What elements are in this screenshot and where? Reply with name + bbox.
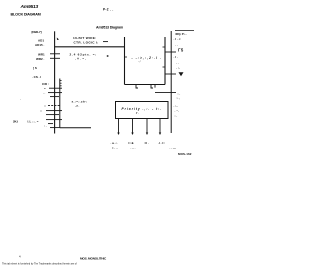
svg-text:, # . = ,: , # . = , [75, 57, 86, 61]
svg-text::. ,: :. , [177, 96, 181, 100]
svg-text:[ S: [ S [33, 66, 37, 70]
svg-text:::: :: [44, 104, 46, 108]
data bus (left vertical bus) [54, 31, 56, 133]
svg-text:. ~.: . ~. [175, 109, 180, 113]
output stub 3 [146, 119, 148, 134]
svg-text:MOS-162: MOS-162 [178, 152, 192, 156]
svg-text:AD15 .: AD15 . [35, 43, 45, 47]
svg-text:BLOCK DIAGRAM: BLOCK DIAGRAM [11, 13, 41, 17]
stub below big box B [151, 85, 153, 89]
svg-text:: .: : . [44, 123, 47, 127]
svg-text:CTR. LOGIC I:: CTR. LOGIC I: [74, 41, 99, 45]
svg-text:IRQ. P:...: IRQ. P:... [176, 32, 187, 36]
svg-text:. :..: . :.. [174, 104, 179, 108]
stub below big box A [136, 85, 138, 89]
priority/interrupt block (bottom box) [116, 102, 169, 119]
svg-text:WR1: WR1 [38, 53, 45, 57]
wire W1: bus to command register box [55, 46, 125, 48]
svg-text:Priority .,:. - t:.: Priority .,:. - t:. [122, 107, 163, 111]
svg-text:Am9513: Am9513 [20, 4, 39, 10]
svg-text:. :·: . :· [176, 66, 180, 70]
svg-text:2.4 62pts. =:: 2.4 62pts. =: [70, 52, 98, 56]
svg-text:- -:>,:,2·.l .: - -:>,:,2·.l . [132, 56, 163, 60]
svg-text:Am9513 Diagram: Am9513 Diagram [96, 26, 123, 30]
svg-text:≡l .: ≡l . [145, 141, 149, 145]
right bus V2 [170, 31, 172, 133]
svg-text:: .: : . [175, 113, 178, 117]
input register block (left box, partial edges) [59, 79, 61, 128]
right label PAUSE overline [175, 29, 194, 31]
svg-text:. .: . . [176, 61, 179, 65]
svg-text:y .: y . [135, 112, 139, 115]
svg-text:2K:l: 2K:l [13, 119, 18, 123]
svg-text:s.:=:.ctr:: s.:=:.ctr: [72, 99, 88, 103]
svg-text:. . —: . . — [170, 146, 176, 150]
svg-text:, y .: , y . [74, 105, 80, 108]
wire W1 end dot [107, 55, 109, 57]
big box inner stubs [125, 56, 128, 58]
svg-text:4: 4 [19, 255, 21, 259]
svg-text:[DB0-7]: [DB0-7] [32, 30, 42, 34]
svg-text:l . . .: l . . . [113, 146, 119, 150]
pin stub small [48, 123, 53, 125]
command/control block (big box, open top) [124, 37, 126, 85]
bus arrowhead [57, 38, 59, 41]
svg-text:. CS . l: . CS . l [32, 75, 41, 79]
output stub 4 [159, 119, 161, 134]
svg-text:.: . [20, 97, 21, 101]
right label row 8 triangle [179, 72, 184, 76]
wire W1 end dash [103, 41, 108, 43]
svg-text:P-2 . .: P-2 . . [103, 7, 114, 11]
svg-text:MOS. MONOLITHIC: MOS. MONOLITHIC [80, 256, 107, 260]
svg-text:. l . .l: . l . .l [174, 37, 181, 41]
svg-text:≡:.¥.: ≡:.¥. [128, 141, 134, 145]
svg-text:. a ·:.: . a ·:. [111, 141, 118, 145]
svg-text:I.L ::. =: I.L ::. = [28, 119, 39, 123]
svg-text:. .: . . [43, 91, 46, 95]
svg-text:. l .: . l . [174, 55, 178, 59]
wire box to right labels upper [165, 51, 176, 53]
svg-text:16-BIT WIDE:: 16-BIT WIDE: [73, 36, 97, 40]
svg-text:This tab sheet is furnished by: This tab sheet is furnished by The Trade… [2, 262, 77, 265]
svg-text:Γ5: Γ5 [178, 48, 184, 53]
svg-text:.,:: .,: [138, 60, 141, 63]
svg-text:AD1: AD1 [38, 39, 44, 43]
svg-text:. ~ .: . ~ . [131, 146, 136, 150]
svg-text:WR2 .: WR2 . [36, 57, 45, 61]
left box inner ticks [60, 80, 62, 82]
output stub 1 [118, 119, 120, 134]
svg-text:: .: : . [178, 92, 181, 96]
svg-text:. .: . . [175, 43, 178, 47]
svg-text:::: :: [40, 109, 42, 113]
wire box to right labels lower [165, 73, 176, 75]
stub below big box C [154, 85, 156, 88]
svg-text:.l.≡:: .l.≡: [158, 141, 166, 145]
wire to GINT label [155, 92, 176, 94]
output stub 2 [132, 119, 134, 134]
pin stub [46, 114, 59, 116]
